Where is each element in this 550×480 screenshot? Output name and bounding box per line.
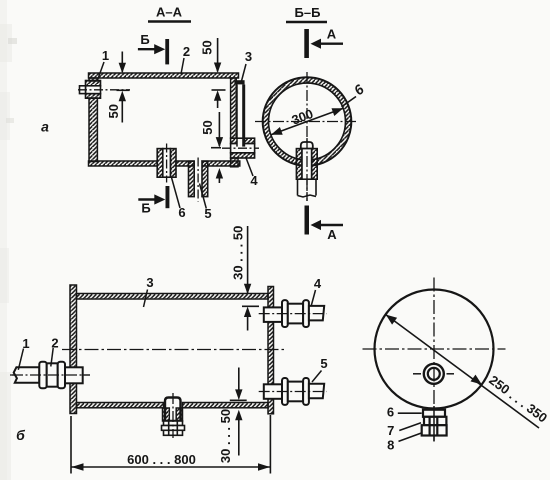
pipe 5 assembly (259, 378, 327, 405)
pipe 5 (189, 161, 208, 196)
right end plate (268, 287, 274, 414)
tank bottom wall left segment (89, 161, 158, 166)
label 8 right (387, 433, 422, 453)
label 5 (200, 184, 212, 222)
section marker B bottom (138, 186, 169, 215)
shell ring (outer circle) (263, 77, 352, 166)
title A-A (148, 5, 191, 22)
section marker B top (138, 32, 169, 64)
label 1 (98, 48, 110, 80)
section marker A top (304, 27, 343, 59)
svg-text:3: 3 (146, 275, 153, 290)
flange 4 axis centerline (237, 139, 243, 147)
flange 1 on left wall (86, 81, 101, 99)
svg-text:50: 50 (200, 120, 215, 134)
svg-text:7: 7 (387, 423, 394, 438)
svg-text:6: 6 (387, 405, 394, 420)
label 3 (242, 49, 253, 81)
label 5 bottom (312, 356, 328, 382)
svg-text:1: 1 (102, 48, 109, 63)
bottom fitting grid (422, 406, 447, 442)
pipe 3 right edge (242, 85, 245, 139)
bottom wall right segment (183, 403, 269, 408)
pipe 3 left edge (236, 85, 238, 139)
fitting at bottom (view B-B) (296, 138, 317, 201)
drain fitting bottom center (162, 393, 185, 438)
vertical centerline (433, 278, 435, 442)
end circle (375, 290, 494, 409)
label 6 (172, 178, 186, 221)
tank top wall (89, 73, 239, 78)
svg-text:А–А: А–А (156, 5, 183, 20)
fitting 6 (157, 149, 176, 178)
left end plate (70, 285, 77, 414)
drain hole inner circle (428, 368, 440, 380)
flange 4 (231, 138, 255, 158)
pipe 4 assembly (259, 300, 327, 327)
dimension 30...50 bottom right (218, 368, 247, 464)
label 2 (181, 44, 190, 74)
diagonal dimension 250...350 (386, 315, 550, 428)
label 4 (246, 157, 259, 189)
drain hole outer circle (424, 364, 444, 384)
dimension 50 bottom right (200, 112, 223, 183)
tank axis centerline (62, 349, 284, 351)
tank right wall (231, 78, 237, 138)
pipe 1 (14, 367, 40, 382)
pipe 1 stub (80, 86, 86, 94)
svg-text:4: 4 (314, 276, 322, 291)
top wall (77, 294, 269, 300)
svg-text:30 . . . 50: 30 . . . 50 (218, 409, 233, 463)
horizontal centerline (255, 121, 358, 123)
shell ring hatch (annulus) (263, 77, 352, 166)
svg-text:Б: Б (140, 32, 149, 47)
label 1 bottom (18, 336, 29, 370)
pipe 3 top cap (234, 80, 244, 84)
vertical centerline (306, 72, 308, 201)
svg-text:4: 4 (250, 173, 258, 188)
svg-text:30 . . . 50: 30 . . . 50 (231, 226, 246, 280)
flange 2 coupling (12, 362, 90, 389)
diameter dimension 300 (271, 97, 356, 135)
svg-text:50: 50 (200, 40, 215, 54)
tank left wall upper segment (89, 78, 97, 81)
svg-text:б: б (16, 427, 25, 443)
svg-text:Б–Б: Б–Б (295, 5, 321, 20)
svg-text:3: 3 (245, 49, 252, 64)
dimension 50 left (106, 52, 129, 123)
bottom wall left segment (77, 403, 164, 408)
pipe 5 axis centerline (197, 158, 199, 202)
svg-text:600 . . . 800: 600 . . . 800 (127, 452, 196, 467)
dimension 50 top right (200, 38, 226, 108)
svg-text:2: 2 (183, 44, 190, 59)
right wall stub below flange 4 (231, 158, 238, 167)
section marker A bottom (305, 206, 344, 243)
drain hole cross ticks (413, 373, 454, 375)
label 6 right (387, 405, 422, 420)
tank left wall lower segment (89, 98, 97, 162)
label 3 bottom (144, 275, 154, 307)
pipe 1 axis (10, 374, 90, 376)
dimension 30...50 top right (231, 226, 260, 331)
svg-text:5: 5 (320, 356, 327, 371)
label 2 bottom (51, 336, 59, 367)
title B-B (286, 5, 327, 22)
tank bottom wall middle segment (176, 161, 194, 166)
svg-text:А: А (327, 27, 337, 42)
inner circle (269, 83, 346, 160)
svg-text:а: а (41, 119, 49, 135)
pipe 1 axis centerline (78, 89, 130, 91)
svg-text:8: 8 (387, 438, 394, 453)
tank bottom wall right segment (202, 161, 240, 166)
dimension 600...800 (71, 415, 270, 474)
label 7 right (387, 423, 421, 438)
scan noise left edge (0, 0, 17, 480)
fitting 6 axis centerline (166, 144, 168, 183)
label 4 bottom (311, 276, 322, 306)
horizontal centerline (363, 348, 506, 350)
svg-text:50: 50 (106, 104, 121, 118)
svg-text:Б: Б (141, 200, 150, 215)
svg-text:А: А (327, 227, 337, 242)
